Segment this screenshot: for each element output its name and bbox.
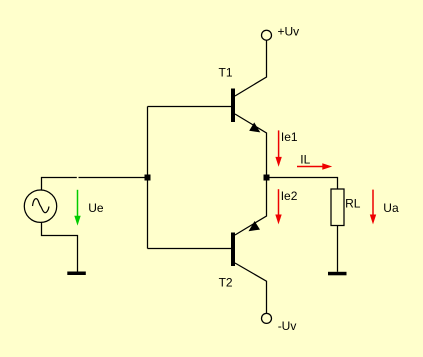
terminal +Uv: [262, 30, 272, 40]
wire RL bottom to ground: [337, 226, 339, 272]
arrow Ie2: [275, 189, 281, 224]
svg-text:Ie2: Ie2: [281, 189, 298, 203]
svg-text:T2: T2: [219, 276, 233, 290]
svg-text:-Uv: -Uv: [278, 319, 297, 333]
svg-text:Ua: Ua: [383, 201, 399, 215]
source V1 sine wave: [33, 199, 50, 213]
arrow Ue: [74, 190, 80, 226]
transistor T1 bar: [231, 89, 235, 123]
svg-text:IL: IL: [300, 152, 310, 166]
transistor T2 bar: [231, 233, 235, 267]
terminal -Uv: [262, 313, 272, 323]
input node junction dot: [145, 175, 151, 181]
svg-text:RL: RL: [345, 196, 361, 210]
transistor T2 emitter arrow: [249, 221, 261, 231]
arrow Ie1: [275, 130, 281, 166]
wire node A down to T2 emitter: [235, 178, 267, 236]
transistor T1 emitter arrow: [249, 122, 260, 132]
wire gap above Ue arrow: [77, 176, 79, 179]
arrow Ua: [370, 190, 376, 225]
node A junction dot: [264, 175, 270, 181]
svg-text:Ue: Ue: [88, 201, 104, 215]
wire +Uv vertical to T1 collector: [235, 40, 267, 96]
wire source bottom to ground: [42, 223, 78, 272]
wire T2 collector to -Uv terminal: [235, 263, 267, 313]
ground under RL: [328, 272, 347, 276]
svg-text:+Uv: +Uv: [278, 25, 300, 39]
wire node A to RL: [267, 178, 338, 190]
wire T1 emitter diagonal and down to node A: [235, 114, 267, 178]
wire input vertical between bases: [147, 107, 149, 249]
wire T1 base: [148, 106, 232, 108]
svg-text:T1: T1: [219, 65, 233, 79]
source V1 circle: [24, 190, 56, 222]
wire source to input node: [42, 178, 148, 191]
resistor RL: [331, 189, 344, 226]
arrow IL: [297, 163, 332, 169]
wire T2 base: [148, 248, 232, 250]
svg-text:Ie1: Ie1: [281, 130, 298, 144]
ground under source: [67, 272, 86, 276]
